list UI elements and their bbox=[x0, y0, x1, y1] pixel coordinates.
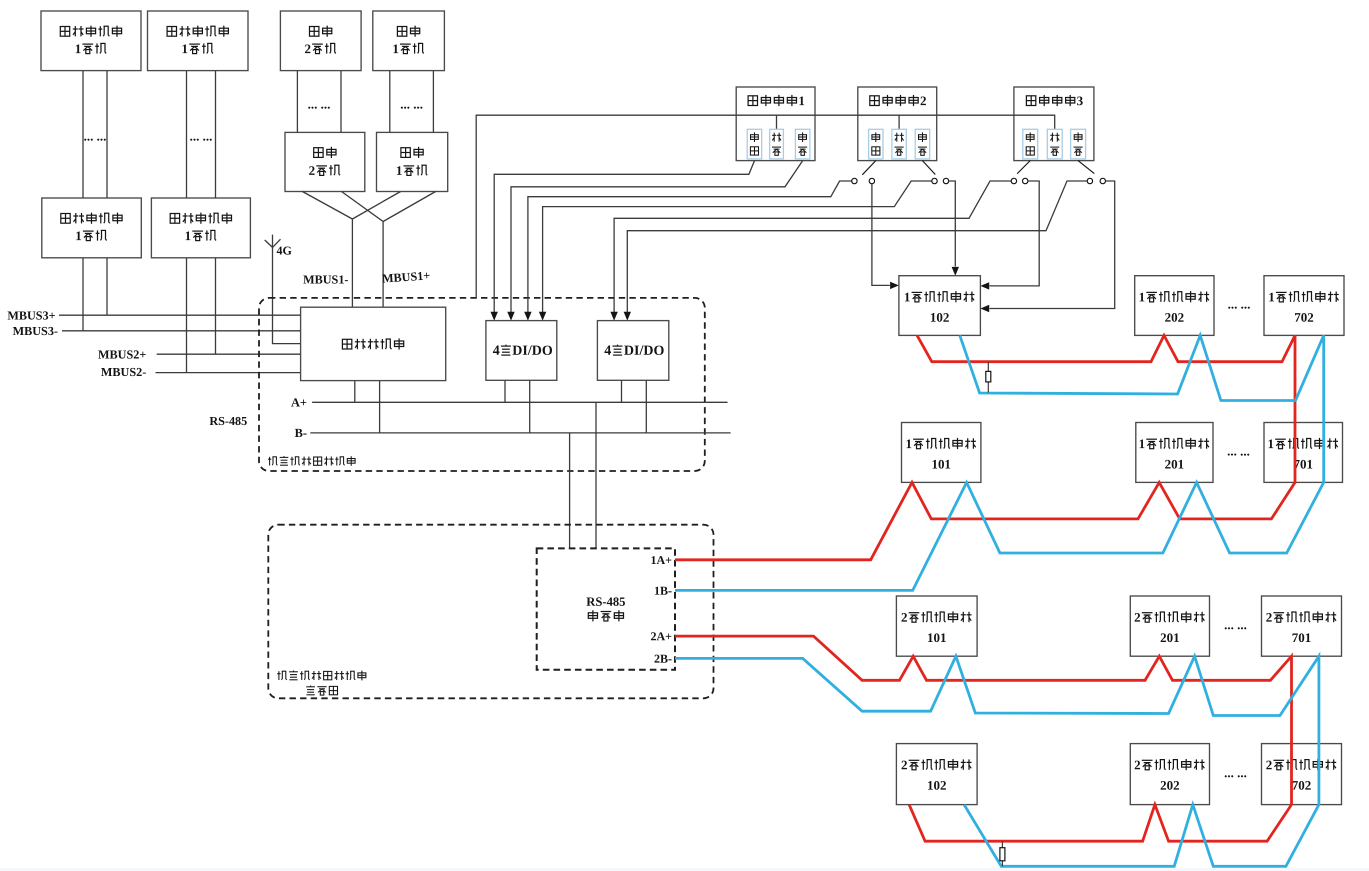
svg-text:1: 1 bbox=[1139, 436, 1146, 451]
terminal box 零线 of valve v1 bbox=[770, 129, 784, 159]
switch contact valve2 open left bbox=[932, 178, 937, 183]
wire valve column1 left bbox=[389, 71, 391, 133]
wire neutral drop valve2 bbox=[898, 115, 900, 129]
box fan-unit 2-102 bbox=[896, 744, 977, 805]
svg-text:... ...: ... ... bbox=[1227, 443, 1250, 458]
svg-text:DI/DO: DI/DO bbox=[624, 344, 665, 359]
box fan-unit 2-702 bbox=[1262, 744, 1342, 805]
wire 2A+ red chain bbox=[675, 636, 1292, 841]
resistor termination row4 wires bbox=[1001, 841, 1003, 866]
svg-text:2: 2 bbox=[1134, 757, 1141, 772]
dashed box RS-485 hub bbox=[537, 548, 675, 669]
bottom strip artifact bbox=[0, 868, 1369, 871]
wire 1A+ red chain bbox=[675, 335, 1295, 559]
wire MBUS2- bbox=[156, 372, 301, 374]
wire 1B- cyan chain bbox=[675, 335, 1324, 590]
terminal label 阀开 of valve v2 bbox=[919, 132, 927, 142]
switch contact valve3 close left bbox=[1011, 178, 1016, 183]
svg-text:2: 2 bbox=[304, 41, 311, 56]
switch lever valve3 close bbox=[1017, 161, 1030, 174]
svg-text:2: 2 bbox=[1266, 610, 1273, 625]
svg-text:1: 1 bbox=[1139, 289, 1146, 304]
svg-text:RS-485: RS-485 bbox=[586, 595, 625, 609]
wire concentrator column1 left bbox=[82, 71, 84, 198]
wire server to B- bbox=[379, 381, 381, 433]
svg-text:1: 1 bbox=[182, 41, 189, 56]
terminal box 阀开 of valve v2 bbox=[915, 129, 930, 159]
arrow valve2 open into DI/DO1 bbox=[539, 312, 546, 321]
svg-text:202: 202 bbox=[1165, 310, 1185, 325]
wire B- tap to hub bbox=[569, 433, 571, 549]
switch contact valve2 close left bbox=[852, 178, 857, 183]
wire neutral bus bbox=[476, 115, 1054, 298]
terminal box 阀开 of valve v1 bbox=[795, 129, 810, 159]
wire concentrator1 to MBUS3+ bbox=[106, 258, 108, 315]
svg-text:1: 1 bbox=[904, 289, 911, 304]
wire MBUS1- vertical bbox=[351, 219, 353, 307]
svg-text:2: 2 bbox=[1134, 610, 1141, 625]
label indoor-concentrator lower-left bbox=[61, 214, 70, 224]
label edge server bbox=[342, 339, 351, 349]
svg-text:2: 2 bbox=[901, 610, 908, 625]
wire DI/DO1 to A+ bbox=[504, 380, 506, 402]
box DI/DO 1 bbox=[486, 321, 557, 381]
antenna 4G mast bbox=[273, 235, 301, 344]
terminal box 零线 of valve v2 bbox=[892, 129, 906, 159]
wire valve2 open switch to fan102 top bbox=[949, 181, 956, 267]
wire concentrator column2 right bbox=[215, 71, 217, 198]
box indoor-concentrator unit1 upper-left bbox=[41, 11, 141, 71]
svg-text:RS-485: RS-485 bbox=[209, 414, 247, 428]
wire 2B- cyan chain bbox=[675, 656, 1319, 866]
svg-text:101: 101 bbox=[931, 456, 951, 471]
wire server to A+ bbox=[354, 381, 356, 403]
box fan-unit 2-202 bbox=[1130, 744, 1209, 805]
svg-text:1: 1 bbox=[392, 41, 399, 56]
svg-text:102: 102 bbox=[927, 778, 947, 793]
svg-text:202: 202 bbox=[1160, 778, 1180, 793]
label household-valve unit1 lower bbox=[401, 148, 410, 158]
antenna 4G right arm bbox=[273, 239, 281, 247]
svg-text:1: 1 bbox=[1268, 289, 1275, 304]
terminal label 阀开 of valve v3 bbox=[1074, 132, 1082, 142]
svg-text:DI/DO: DI/DO bbox=[512, 344, 553, 359]
svg-text:702: 702 bbox=[1292, 778, 1312, 793]
svg-text:... ...: ... ... bbox=[190, 128, 213, 143]
svg-text:4: 4 bbox=[493, 344, 500, 359]
wire MBUS1+ vertical bbox=[382, 222, 384, 308]
label electric-air-valve 1 bbox=[748, 96, 758, 106]
arrow valve3 open into DI/DO2 bbox=[624, 312, 631, 321]
wire valve1-left to MBUS1- junction bbox=[352, 192, 400, 220]
svg-text:2: 2 bbox=[920, 93, 927, 108]
wire valve3 close to DI/DO2 bbox=[614, 181, 1011, 312]
arrow valve2 close into DI/DO1 bbox=[524, 312, 531, 321]
label household-valve unit2 upper bbox=[310, 27, 319, 37]
terminal label 阀关 of valve v1 bbox=[751, 132, 759, 142]
resistor termination row1 wires bbox=[987, 362, 989, 393]
terminal label 阀关 of valve v3 bbox=[1026, 132, 1034, 142]
wire valve3 open to DI/DO2 bbox=[627, 181, 1087, 312]
svg-text:101: 101 bbox=[927, 630, 947, 645]
wire MBUS2+ bbox=[157, 353, 301, 355]
terminal label 零线 of valve v1 bbox=[772, 133, 781, 142]
terminal label 零线 of valve v3 bbox=[1050, 133, 1059, 142]
svg-text:1B-: 1B- bbox=[654, 584, 672, 598]
wire neutral drop valve1 bbox=[776, 115, 778, 129]
terminal box 阀关 of valve v2 bbox=[869, 129, 883, 159]
arrow valve3 close into DI/DO2 bbox=[610, 312, 617, 321]
box fan-unit 1-202 bbox=[1135, 276, 1214, 336]
label indoor-concentrator upper-left bbox=[60, 27, 69, 37]
label indoor-concentrator upper-right bbox=[167, 27, 176, 37]
wire concentrator column2 left bbox=[186, 71, 188, 198]
box fan-unit 2-201 bbox=[1130, 596, 1209, 656]
switch lever valve2 open bbox=[922, 161, 935, 175]
svg-text:... ...: ... ... bbox=[308, 96, 331, 111]
label expansion line2 bbox=[306, 686, 315, 695]
label building controller bbox=[268, 457, 278, 466]
svg-text:B-: B- bbox=[295, 426, 307, 440]
svg-text:2: 2 bbox=[901, 757, 908, 772]
box household-valve unit2 lower bbox=[285, 132, 365, 191]
arrow into fan102 top bbox=[952, 267, 959, 276]
label household-valve unit1 upper bbox=[397, 27, 406, 37]
wire valve2-right to MBUS1+ junction bbox=[342, 192, 384, 222]
svg-text:201: 201 bbox=[1160, 630, 1180, 645]
svg-text:1: 1 bbox=[396, 163, 403, 178]
svg-text:701: 701 bbox=[1292, 630, 1312, 645]
label expansion line1 bbox=[277, 671, 287, 680]
wire valve column2 right bbox=[340, 71, 342, 133]
box indoor-concentrator unit1 lower-right bbox=[151, 198, 250, 258]
terminal box 零线 of valve v3 bbox=[1047, 129, 1062, 159]
wire valve2-left to MBUS1- junction bbox=[302, 192, 352, 220]
box indoor-concentrator unit1 lower-left bbox=[42, 198, 142, 258]
box fan-unit 2-101 bbox=[896, 596, 977, 656]
box DI/DO 2 bbox=[597, 321, 668, 381]
wire A+ tap to hub bbox=[595, 402, 597, 548]
arrow into fan102 left bbox=[890, 282, 899, 289]
svg-text:2: 2 bbox=[1266, 757, 1273, 772]
box fan-unit 1-201 bbox=[1136, 423, 1213, 483]
resistor termination row4 body bbox=[1000, 848, 1005, 861]
box household-valve unit1 lower bbox=[377, 132, 448, 191]
switch contact valve3 open right bbox=[1100, 178, 1105, 183]
wire valve1 close to DI/DO1 bbox=[494, 161, 754, 312]
switch lever valve2 close bbox=[862, 161, 876, 175]
box indoor-concentrator unit1 upper-right bbox=[148, 11, 249, 71]
svg-text:A+: A+ bbox=[291, 395, 307, 409]
switch contact valve3 close right bbox=[1022, 178, 1027, 183]
terminal label 阀关 of valve v2 bbox=[872, 132, 880, 142]
svg-text:MBUS3+: MBUS3+ bbox=[7, 308, 55, 322]
svg-text:MBUS2-: MBUS2- bbox=[101, 365, 146, 379]
svg-text:... ...: ... ... bbox=[1224, 765, 1247, 780]
label indoor-concentrator lower-right bbox=[170, 214, 179, 224]
wire MBUS3- bbox=[62, 330, 301, 332]
box household-valve unit2 upper bbox=[280, 11, 361, 71]
svg-text:102: 102 bbox=[930, 310, 950, 325]
svg-text:1: 1 bbox=[798, 93, 805, 108]
box electric-air-valve 3 bbox=[1014, 87, 1094, 161]
wire valve3 open switch to fan102 right lower bbox=[990, 181, 1115, 309]
label hub hanzi bbox=[588, 610, 597, 621]
box fan-unit 1-701 bbox=[1264, 423, 1343, 483]
box fan-unit 1-702 bbox=[1264, 276, 1344, 336]
wire B- bus bbox=[310, 432, 730, 434]
wire concentrator column1 right bbox=[106, 71, 108, 198]
svg-text:1: 1 bbox=[75, 41, 82, 56]
switch contact valve2 close right bbox=[869, 178, 874, 183]
terminal box 阀关 of valve v1 bbox=[747, 129, 762, 159]
svg-text:4: 4 bbox=[604, 344, 611, 359]
terminal label 零线 of valve v2 bbox=[895, 133, 904, 142]
arrow valve1 close into DI/DO1 bbox=[491, 312, 498, 321]
wire concentrator1 to MBUS3- bbox=[82, 258, 84, 331]
dashed box controller expansion bbox=[268, 525, 713, 699]
svg-text:... ...: ... ... bbox=[400, 96, 423, 111]
svg-text:702: 702 bbox=[1294, 310, 1314, 325]
wire DI/DO2 to A+ bbox=[621, 380, 623, 402]
box edge server bbox=[301, 307, 446, 380]
svg-text:3: 3 bbox=[1077, 93, 1084, 108]
svg-text:1: 1 bbox=[185, 228, 192, 243]
svg-text:... ...: ... ... bbox=[1228, 297, 1251, 312]
box electric-air-valve 2 bbox=[858, 87, 937, 161]
wire A+ bus bbox=[312, 401, 727, 403]
svg-text:1: 1 bbox=[1267, 436, 1274, 451]
resistor termination row1 body bbox=[986, 371, 991, 382]
wire valve column2 left bbox=[296, 71, 298, 133]
terminal label 阀开 of valve v1 bbox=[799, 132, 807, 142]
box fan-unit 1-101 bbox=[902, 423, 981, 483]
svg-text:2A+: 2A+ bbox=[650, 629, 672, 643]
arrow into fan102 right lower bbox=[980, 305, 989, 312]
wire concentrator2 to MBUS2+ bbox=[215, 258, 217, 354]
label electric-air-valve 3 bbox=[1026, 96, 1036, 106]
svg-text:MBUS3-: MBUS3- bbox=[13, 324, 58, 338]
wire valve2 close to DI/DO1 bbox=[528, 181, 852, 312]
svg-text:4G: 4G bbox=[276, 244, 291, 258]
wire concentrator2 to MBUS2- bbox=[186, 258, 188, 373]
svg-text:701: 701 bbox=[1293, 456, 1313, 471]
arrow valve1 open into DI/DO1 bbox=[507, 312, 514, 321]
svg-text:201: 201 bbox=[1165, 456, 1185, 471]
svg-text:2B-: 2B- bbox=[654, 652, 672, 666]
label household-valve unit2 lower bbox=[314, 148, 323, 158]
svg-text:... ...: ... ... bbox=[1224, 617, 1247, 632]
box fan-unit 1-102 bbox=[899, 276, 981, 336]
svg-text:2: 2 bbox=[309, 163, 316, 178]
wire valve2 open to DI/DO1 bbox=[543, 181, 932, 312]
wire valve column1 right bbox=[432, 71, 434, 133]
svg-text:1: 1 bbox=[905, 436, 912, 451]
svg-text:1: 1 bbox=[75, 228, 82, 243]
wire valve1 open to DI/DO1 bbox=[511, 161, 803, 312]
svg-text:... ...: ... ... bbox=[84, 128, 107, 143]
terminal box 阀关 of valve v3 bbox=[1023, 129, 1038, 159]
dashed box building controller bbox=[259, 298, 705, 471]
box household-valve unit1 upper bbox=[373, 11, 445, 71]
switch lever valve3 open bbox=[1078, 161, 1094, 174]
wire DI/DO1 to B- bbox=[529, 380, 531, 433]
box electric-air-valve 1 bbox=[736, 87, 815, 161]
wire MBUS3+ bbox=[59, 314, 301, 316]
wire DI/DO2 to B- bbox=[645, 380, 647, 433]
wire valve3 close switch to fan102 right bbox=[990, 181, 1040, 286]
switch contact valve2 open right bbox=[943, 178, 948, 183]
antenna 4G left arm bbox=[265, 240, 273, 247]
svg-text:1A+: 1A+ bbox=[650, 553, 672, 567]
svg-text:MBUS1-: MBUS1- bbox=[303, 272, 348, 286]
label electric-air-valve 2 bbox=[870, 96, 880, 106]
svg-text:MBUS2+: MBUS2+ bbox=[98, 347, 146, 361]
switch contact valve3 open left bbox=[1087, 178, 1092, 183]
box fan-unit 2-701 bbox=[1262, 596, 1342, 656]
terminal box 阀开 of valve v3 bbox=[1071, 129, 1086, 159]
arrow into fan102 right upper bbox=[980, 282, 989, 289]
wire valve2 close switch to fan102 left bbox=[872, 184, 890, 286]
wire valve1-right to MBUS1+ junction bbox=[383, 192, 436, 222]
